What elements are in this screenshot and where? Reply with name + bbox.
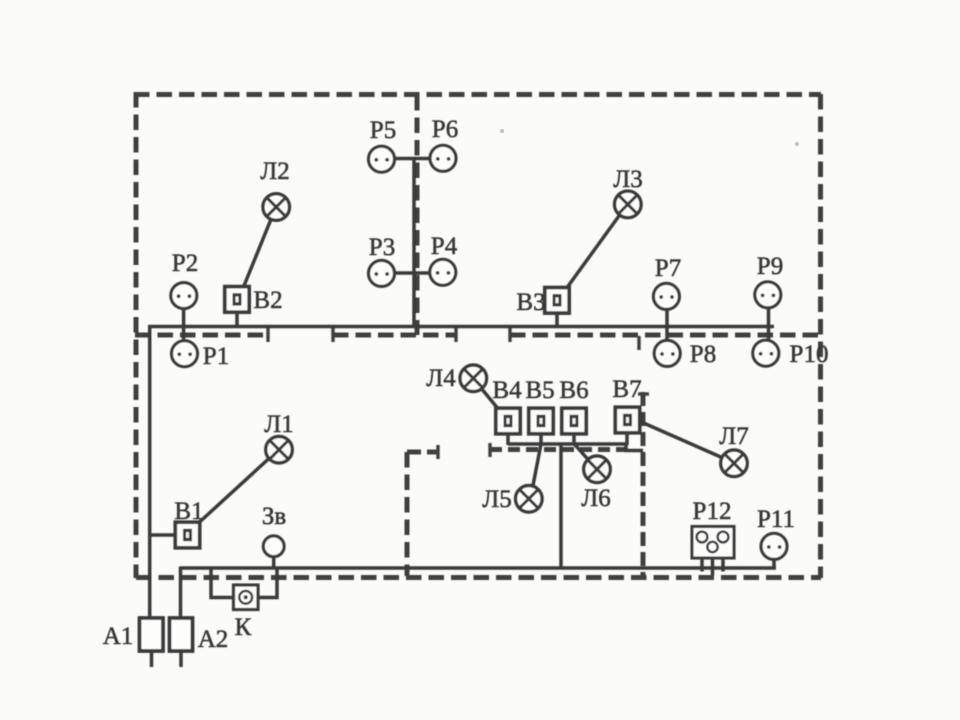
- socket P6: [430, 145, 456, 171]
- svg-text:Р4: Р4: [431, 233, 458, 260]
- wall: vertical partition upper middle: [415, 95, 420, 335]
- wire: P12 middle stem: [711, 551, 715, 576]
- svg-text:Р5: Р5: [370, 117, 396, 144]
- svg-text:Л5: Л5: [482, 486, 511, 513]
- socket block P12: [692, 527, 734, 559]
- wire: stem P7-P8: [665, 308, 669, 342]
- wire: stem P2-P1: [182, 307, 186, 342]
- socket P4: [430, 259, 456, 285]
- svg-text:А1: А1: [103, 623, 134, 650]
- svg-text:Л1: Л1: [264, 411, 293, 438]
- socket P2: [171, 283, 197, 309]
- socket P8: [654, 340, 680, 366]
- tick below mid wall near doorway: [637, 336, 640, 350]
- wall: horizontal mid, left segment: [135, 333, 268, 338]
- switch B4: [496, 408, 520, 434]
- switch B1: [175, 522, 199, 548]
- socket P11: [761, 533, 787, 559]
- svg-text:В6: В6: [559, 377, 588, 404]
- wire: stem of switch B2: [235, 310, 239, 327]
- wall: top outer: [134, 92, 821, 97]
- wire: riser of meter A2: [179, 567, 183, 620]
- svg-text:Л2: Л2: [260, 158, 289, 185]
- wire: left riser down to meter A1: [148, 325, 152, 619]
- wall: lower-left partition stub: [407, 450, 438, 455]
- socket P7: [653, 283, 679, 309]
- wire: stem of bell: [272, 556, 276, 569]
- svg-text:Р12: Р12: [693, 498, 732, 525]
- wire: stem of switch B3: [555, 311, 559, 327]
- svg-text:Л3: Л3: [613, 166, 642, 193]
- wire: stem of P11: [772, 558, 776, 570]
- scan speck: [795, 142, 799, 146]
- svg-text:Л7: Л7: [719, 423, 748, 450]
- svg-text:В7: В7: [612, 376, 641, 403]
- wall: bottom outer: [136, 575, 821, 580]
- wire: centre vertical between socket pairs: [412, 159, 416, 327]
- wire: diagonal bus to lamp L5: [533, 444, 542, 488]
- svg-text:В2: В2: [253, 287, 282, 314]
- wire: P12 left stem: [700, 541, 704, 572]
- wire: diagonal bus to lamp L6: [574, 444, 588, 460]
- svg-text:Зв: Зв: [262, 503, 286, 530]
- wire: bottom main horizontal: [181, 566, 777, 570]
- wire: diagonal B2 to lamp L2: [244, 218, 272, 287]
- wire: upper main horizontal: [148, 325, 774, 329]
- svg-text:А2: А2: [198, 626, 229, 653]
- wire: button K loop right: [258, 567, 278, 598]
- wall: lower-middle partition horizontal: [490, 447, 626, 452]
- socket P3: [369, 260, 395, 286]
- svg-text:Л6: Л6: [581, 485, 610, 512]
- lamp L4: [460, 365, 487, 392]
- wire: diagonal B7 to lamp L7: [639, 421, 723, 458]
- wire: P12 right stem: [721, 541, 725, 572]
- wire: drop of B6: [572, 433, 576, 446]
- tick mid wall at x=510: [508, 328, 511, 342]
- tick top of lower-right partition: [638, 392, 649, 395]
- wire: stub below meter A2: [179, 650, 183, 667]
- wire: drop of B7: [625, 432, 629, 446]
- bell Zv: [263, 536, 284, 557]
- wall: horizontal mid, right segment: [510, 333, 818, 338]
- tick start of lower-middle partition: [488, 443, 491, 457]
- svg-text:Р11: Р11: [757, 506, 795, 533]
- svg-text:Р3: Р3: [369, 234, 395, 261]
- switch B5: [529, 408, 553, 434]
- switch B7: [615, 407, 639, 433]
- tick mid wall at x=268: [266, 328, 269, 342]
- tick mid wall at x=333: [331, 328, 334, 342]
- wire: drop of B4: [506, 433, 510, 446]
- switch B3: [545, 288, 569, 314]
- svg-text:В1: В1: [174, 498, 203, 525]
- wire: diagonal B1 to lamp L1: [199, 458, 270, 523]
- lamp L2: [263, 194, 290, 221]
- svg-text:В4: В4: [492, 377, 522, 404]
- wall: right outer: [818, 94, 823, 578]
- wall: lower-left partition vertical: [405, 452, 410, 576]
- lamp L3: [615, 191, 642, 218]
- meter A1: [140, 618, 164, 651]
- wire: button K loop left: [211, 567, 234, 598]
- lamp L1: [266, 436, 293, 463]
- lamp L5: [516, 486, 543, 513]
- scan speck: [500, 129, 504, 133]
- bell button K: [234, 585, 259, 610]
- door ticks on walls: [268, 328, 649, 459]
- svg-text:Р6: Р6: [432, 116, 458, 143]
- svg-text:Л4: Л4: [426, 365, 456, 392]
- lamp L6: [584, 456, 611, 483]
- socket P9: [755, 282, 781, 308]
- lamp L7: [721, 450, 748, 477]
- meter A2: [170, 618, 193, 651]
- socket P5: [369, 146, 395, 172]
- svg-text:К: К: [235, 614, 252, 641]
- wire: diagonal B3 to lamp L3: [566, 215, 620, 290]
- tick end of lower-left partition stub: [436, 445, 439, 459]
- svg-text:Р1: Р1: [203, 343, 229, 370]
- wire: stub below meter A1: [150, 650, 154, 667]
- socket P10: [753, 340, 779, 366]
- wire: stem P9-P10: [767, 307, 771, 342]
- wire: drop of B5: [539, 433, 543, 446]
- svg-text:В5: В5: [525, 377, 554, 404]
- wire: connector P5-P6: [394, 157, 431, 161]
- svg-text:Р9: Р9: [757, 253, 783, 280]
- svg-text:Р10: Р10: [790, 341, 829, 368]
- wall: horizontal mid, centre segment: [333, 333, 456, 338]
- wire: link to switch B1: [148, 533, 177, 537]
- tick mid wall at x=456: [454, 328, 457, 342]
- wall: lower-right partition vertical: [641, 392, 646, 576]
- svg-text:В3: В3: [516, 289, 545, 316]
- svg-text:Р2: Р2: [172, 250, 198, 277]
- wire: feeder from bus down to bottom main: [559, 444, 563, 568]
- svg-text:Р7: Р7: [655, 255, 681, 282]
- switch B6: [562, 408, 586, 434]
- svg-text:Р8: Р8: [690, 341, 716, 368]
- switch B2: [225, 287, 249, 313]
- wire: diagonal lamp L4 to B4: [481, 388, 500, 411]
- socket P1: [172, 341, 198, 367]
- wall: left outer: [134, 92, 139, 578]
- wire: switch bus under B4-B7: [508, 444, 643, 451]
- wire: connector P3-P4: [394, 271, 430, 275]
